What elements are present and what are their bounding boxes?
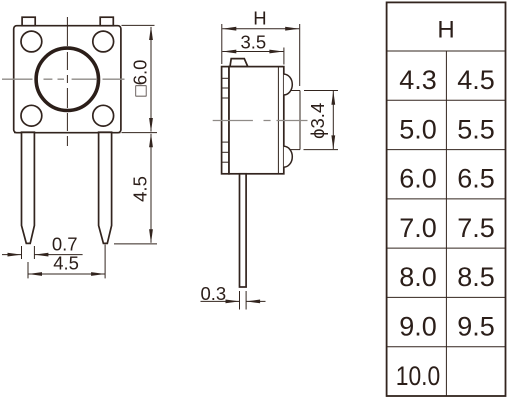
side view centerline — [213, 120, 308, 122]
dim 4.5 bottom extension lines — [28, 245, 105, 279]
table row 5 — [399, 262, 495, 292]
dim phi3.4 line with arrows — [331, 91, 335, 150]
dim 0.7 extension lines — [22, 246, 35, 259]
side view inner edge line — [277, 67, 279, 174]
dim label 4.5 vertical — [130, 176, 151, 202]
svg-text:5.5: 5.5 — [457, 114, 495, 144]
svg-text:□6.0: □6.0 — [130, 60, 151, 97]
dim 4.5 right line — [149, 133, 153, 243]
horizontal centerline — [2, 78, 125, 80]
dim 0.3 extension lines — [240, 291, 247, 310]
table header divider — [387, 50, 506, 52]
svg-text:8.5: 8.5 — [457, 262, 495, 292]
dim shared extension line at square bottom — [122, 132, 158, 134]
dim label H — [253, 7, 266, 28]
side view top bump — [284, 74, 293, 95]
table row 6 — [399, 312, 495, 342]
square bottom edge redraw — [14, 132, 121, 134]
side view body — [229, 67, 284, 174]
table outer border — [387, 2, 506, 396]
side view bottom bump — [284, 146, 293, 167]
table column divider — [445, 51, 447, 396]
corner circle bottom-left — [21, 105, 42, 126]
svg-text:H: H — [253, 7, 266, 28]
svg-text:6.5: 6.5 — [457, 164, 495, 194]
dim 6.0 top extension line — [122, 24, 155, 26]
dim label 0.7 — [52, 234, 78, 255]
dim label 4.5 bottom — [53, 253, 79, 274]
left leg — [22, 132, 35, 243]
dim 4.5 right extension at leg tip — [114, 243, 157, 245]
dim 6.0 line — [149, 26, 153, 132]
right leg — [99, 132, 112, 243]
corner circle bottom-right — [93, 105, 114, 126]
dim label square-6.0 — [130, 60, 151, 97]
dim H extension lines — [222, 24, 300, 86]
svg-text:4.3: 4.3 — [399, 65, 437, 95]
svg-text:10.0: 10.0 — [396, 361, 441, 391]
svg-text:5.0: 5.0 — [399, 114, 437, 144]
svg-text:4.5: 4.5 — [130, 176, 151, 202]
top view left tab — [22, 17, 35, 26]
table row lines — [387, 100, 506, 346]
vertical centerline — [66, 17, 68, 146]
dim 3.5 line with arrows — [222, 50, 283, 54]
table header text H — [437, 17, 454, 44]
table row 2 — [399, 114, 495, 144]
svg-text:4.5: 4.5 — [53, 253, 79, 274]
corner circle top-left — [21, 31, 42, 52]
svg-text:9.0: 9.0 — [399, 312, 437, 342]
svg-text:8.0: 8.0 — [399, 262, 437, 292]
svg-text:7.0: 7.0 — [399, 213, 437, 243]
side view top tab — [230, 59, 248, 67]
svg-text:H: H — [437, 17, 454, 44]
side view flange strip — [222, 67, 229, 174]
svg-text:4.5: 4.5 — [457, 65, 495, 95]
table row 4 — [399, 213, 495, 243]
dim label 0.3 — [200, 283, 226, 304]
dim 3.5 extension line right — [283, 48, 285, 65]
svg-text:6.0: 6.0 — [399, 164, 437, 194]
side view flange terminal lines — [222, 78, 229, 162]
dim 0.3 line with arrows — [201, 300, 266, 304]
dim label phi3.4 — [307, 103, 328, 139]
svg-text:9.5: 9.5 — [457, 312, 495, 342]
side view leg — [240, 174, 247, 287]
dim label 3.5 — [240, 32, 266, 53]
table row 3 — [399, 164, 495, 194]
side view actuator — [290, 91, 300, 150]
corner circle top-right — [93, 31, 114, 52]
svg-text:3.5: 3.5 — [240, 32, 266, 53]
svg-text:7.5: 7.5 — [457, 213, 495, 243]
svg-text:0.3: 0.3 — [200, 283, 226, 304]
dim 4.5 bottom line with arrows — [28, 272, 105, 276]
center button circle — [36, 48, 98, 110]
svg-text:0.7: 0.7 — [52, 234, 78, 255]
table row 1 — [399, 65, 495, 95]
top view right tab — [100, 17, 113, 26]
top view body square — [14, 26, 121, 133]
table row 7 — [396, 361, 441, 391]
dim phi3.4 extension lines — [304, 91, 339, 150]
dim H line with arrows — [222, 27, 299, 31]
dim 0.7 line with arrows — [2, 253, 83, 257]
svg-text:ϕ3.4: ϕ3.4 — [307, 103, 328, 139]
